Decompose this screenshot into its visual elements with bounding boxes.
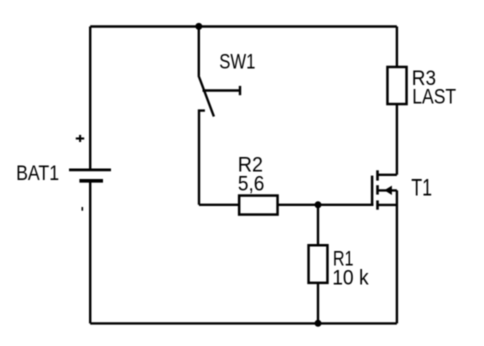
transistor T1 (n-MOSFET) [372,170,397,323]
channel bar body [376,185,379,194]
channel bar source [376,200,379,209]
svg-text:SW1: SW1 [219,50,255,74]
body arrow [384,186,392,195]
battery BAT1 [69,170,111,181]
svg-text:5,6: 5,6 [238,171,265,195]
wire R3 to drain [396,105,398,175]
node junction top (switch tap) [195,23,202,30]
wire junction to R1 [317,205,319,245]
node junction R2/R1/gate [315,201,322,208]
switch SW1 [199,27,241,205]
wire R1 to bottom rail [317,284,319,324]
svg-text:10 k: 10 k [332,266,369,290]
wire switch to R2 [199,204,239,206]
channel bar drain [376,170,379,180]
svg-text:T1: T1 [411,174,432,201]
wire source to bottom rail [396,190,398,323]
wire switch drop from top rail [198,27,200,76]
label + (battery positive) [76,135,84,142]
resistor R3 [387,67,406,104]
source lead [378,204,397,206]
svg-text:LAST: LAST [412,85,456,109]
label - (battery negative) [81,207,83,211]
wire top rail [90,25,397,27]
switch actuator end tick [239,86,241,95]
switch fixed contact [199,111,205,205]
switch blade [199,76,214,117]
switch actuator bar [203,89,241,91]
wire R2 to gate [278,204,374,206]
wire left rail lower [89,181,91,324]
node junction bottom (R1 tap) [315,320,322,327]
wire left rail upper [89,27,91,170]
resistor R1 [309,245,328,283]
resistor R2 [239,196,277,215]
wire bottom rail [90,322,397,324]
svg-text:BAT1: BAT1 [16,161,59,185]
wire right rail upper [396,27,398,68]
body arrow lead [378,189,397,191]
drain lead [378,174,397,176]
gate electrode [371,176,374,206]
